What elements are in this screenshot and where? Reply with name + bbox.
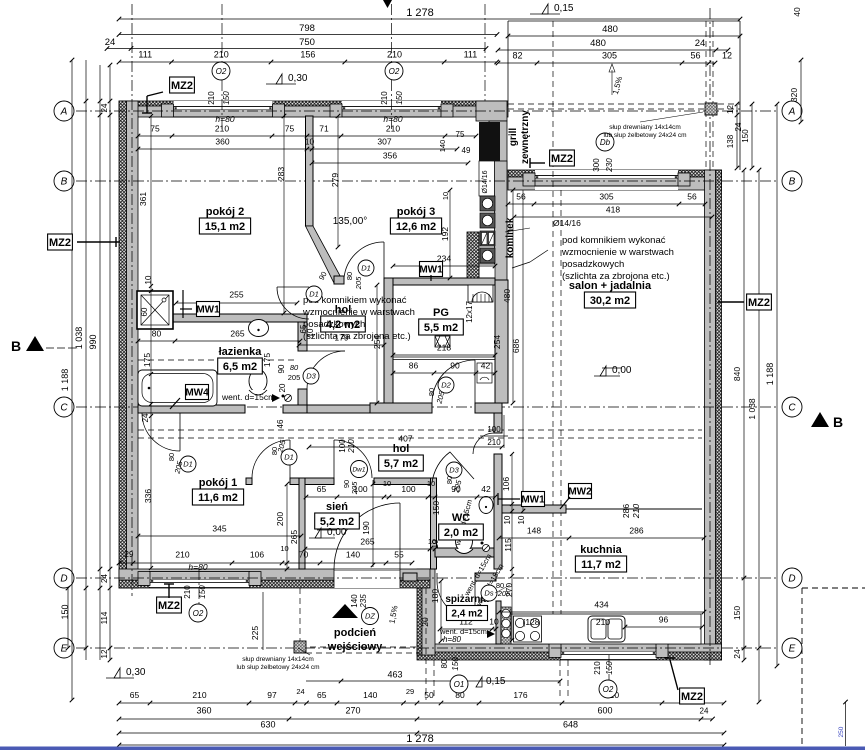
svg-text:posadzkowych: posadzkowych bbox=[303, 319, 365, 330]
svg-text:O2: O2 bbox=[216, 67, 227, 76]
svg-text:(128: (128 bbox=[522, 617, 539, 627]
svg-text:h=80: h=80 bbox=[188, 562, 207, 572]
svg-text:75: 75 bbox=[150, 124, 160, 134]
svg-text:Ø14/16: Ø14/16 bbox=[482, 170, 489, 193]
svg-text:175: 175 bbox=[262, 353, 272, 367]
svg-text:24: 24 bbox=[734, 122, 743, 131]
svg-text:210: 210 bbox=[386, 124, 400, 134]
svg-text:D1: D1 bbox=[183, 460, 193, 469]
svg-text:podcień: podcień bbox=[334, 627, 376, 639]
svg-text:D2: D2 bbox=[441, 381, 451, 390]
svg-text:798: 798 bbox=[299, 23, 315, 34]
svg-text:B: B bbox=[833, 414, 843, 430]
svg-text:A: A bbox=[788, 107, 796, 118]
svg-text:56: 56 bbox=[516, 192, 526, 202]
svg-text:210: 210 bbox=[380, 91, 389, 105]
svg-text:Ds: Ds bbox=[484, 589, 493, 598]
svg-text:24: 24 bbox=[100, 574, 109, 583]
svg-text:50: 50 bbox=[424, 690, 434, 700]
svg-text:111: 111 bbox=[138, 50, 152, 60]
svg-text:MW2: MW2 bbox=[568, 487, 592, 498]
svg-text:hol: hol bbox=[393, 443, 410, 455]
svg-text:D1: D1 bbox=[309, 290, 319, 299]
svg-text:0,00: 0,00 bbox=[327, 527, 347, 538]
svg-text:h=80: h=80 bbox=[215, 114, 234, 124]
svg-text:O2: O2 bbox=[603, 685, 614, 694]
svg-text:went. d=15cm: went. d=15cm bbox=[221, 392, 275, 402]
svg-text:305: 305 bbox=[599, 192, 613, 202]
svg-text:286: 286 bbox=[621, 504, 631, 518]
svg-text:265: 265 bbox=[289, 530, 299, 544]
svg-text:10: 10 bbox=[441, 192, 450, 200]
svg-text:148: 148 bbox=[527, 526, 541, 536]
svg-text:24: 24 bbox=[695, 38, 706, 49]
svg-text:E: E bbox=[789, 644, 796, 655]
svg-text:pokój 2: pokój 2 bbox=[206, 206, 245, 218]
svg-text:5,7 m2: 5,7 m2 bbox=[384, 458, 418, 470]
svg-text:320: 320 bbox=[789, 88, 799, 102]
svg-text:1 038: 1 038 bbox=[747, 398, 757, 420]
svg-text:29: 29 bbox=[125, 550, 134, 559]
svg-text:MZ2: MZ2 bbox=[158, 600, 180, 612]
svg-text:Dw1: Dw1 bbox=[352, 466, 365, 473]
svg-text:80: 80 bbox=[152, 329, 162, 339]
svg-text:B: B bbox=[61, 177, 68, 188]
svg-text:990: 990 bbox=[88, 334, 98, 349]
svg-text:10: 10 bbox=[280, 544, 288, 553]
svg-text:65: 65 bbox=[317, 690, 327, 700]
svg-text:600: 600 bbox=[597, 706, 612, 716]
svg-text:115: 115 bbox=[503, 538, 513, 552]
svg-text:20: 20 bbox=[278, 383, 287, 392]
svg-text:2,4 m2: 2,4 m2 bbox=[451, 609, 483, 620]
svg-text:46: 46 bbox=[276, 419, 285, 428]
svg-text:140: 140 bbox=[346, 550, 360, 560]
svg-text:80: 80 bbox=[290, 363, 299, 372]
svg-text:24: 24 bbox=[296, 687, 304, 696]
svg-text:24: 24 bbox=[141, 413, 150, 422]
svg-text:360: 360 bbox=[215, 137, 229, 147]
svg-text:D: D bbox=[788, 574, 795, 585]
svg-text:C: C bbox=[60, 403, 68, 414]
svg-text:176: 176 bbox=[513, 690, 527, 700]
svg-text:218: 218 bbox=[437, 343, 451, 353]
svg-text:300: 300 bbox=[592, 158, 601, 172]
svg-text:210: 210 bbox=[487, 438, 501, 447]
svg-text:0,15: 0,15 bbox=[554, 3, 574, 14]
svg-text:lub słup żelbetowy 24x24 cm: lub słup żelbetowy 24x24 cm bbox=[603, 132, 686, 139]
svg-text:90: 90 bbox=[277, 364, 286, 373]
svg-text:80: 80 bbox=[167, 453, 176, 461]
svg-text:0,00: 0,00 bbox=[612, 365, 632, 376]
svg-text:12,6 m2: 12,6 m2 bbox=[396, 221, 436, 233]
svg-text:750: 750 bbox=[299, 37, 315, 48]
svg-text:10: 10 bbox=[489, 617, 499, 627]
svg-text:286: 286 bbox=[629, 526, 643, 536]
svg-text:56: 56 bbox=[687, 192, 697, 202]
svg-text:190: 190 bbox=[362, 521, 371, 535]
svg-text:210: 210 bbox=[387, 50, 402, 60]
svg-text:150: 150 bbox=[198, 585, 207, 599]
svg-text:100: 100 bbox=[487, 425, 501, 434]
svg-text:55: 55 bbox=[394, 550, 404, 560]
svg-text:361: 361 bbox=[138, 192, 148, 206]
svg-text:MZ2: MZ2 bbox=[171, 80, 193, 92]
svg-text:12: 12 bbox=[726, 105, 735, 114]
svg-text:1 188: 1 188 bbox=[765, 363, 775, 386]
svg-text:210: 210 bbox=[183, 585, 192, 599]
svg-text:29: 29 bbox=[406, 687, 414, 696]
svg-text:h=80: h=80 bbox=[383, 114, 402, 124]
svg-text:106: 106 bbox=[250, 550, 264, 560]
svg-text:307: 307 bbox=[377, 137, 391, 147]
svg-text:h=80: h=80 bbox=[443, 635, 462, 644]
svg-text:WC: WC bbox=[452, 512, 470, 524]
svg-text:210: 210 bbox=[593, 661, 602, 675]
svg-text:230: 230 bbox=[605, 158, 614, 173]
svg-text:140: 140 bbox=[350, 594, 359, 608]
svg-text:254: 254 bbox=[492, 335, 502, 349]
svg-text:480: 480 bbox=[502, 289, 512, 303]
svg-text:305: 305 bbox=[602, 51, 617, 61]
svg-text:648: 648 bbox=[563, 720, 578, 730]
svg-text:pokój 3: pokój 3 bbox=[397, 206, 436, 218]
svg-text:434: 434 bbox=[594, 600, 608, 610]
svg-text:407: 407 bbox=[398, 434, 412, 444]
svg-text:24: 24 bbox=[732, 649, 742, 659]
svg-text:49: 49 bbox=[462, 146, 471, 155]
svg-text:wzmocnienie w warstwach: wzmocnienie w warstwach bbox=[302, 307, 415, 318]
svg-text:słup drewniany 14x14cm: słup drewniany 14x14cm bbox=[609, 124, 681, 131]
svg-text:wzmocnienie w warstwach: wzmocnienie w warstwach bbox=[561, 247, 674, 258]
svg-text:150: 150 bbox=[60, 604, 70, 619]
svg-text:11,7 m2: 11,7 m2 bbox=[581, 559, 621, 571]
svg-text:24: 24 bbox=[100, 103, 109, 112]
svg-text:lub słup żelbetowy 24x24 cm: lub słup żelbetowy 24x24 cm bbox=[236, 664, 319, 671]
svg-text:(szlichta za zbrojona etc.): (szlichta za zbrojona etc.) bbox=[303, 331, 411, 342]
svg-text:265: 265 bbox=[230, 329, 244, 339]
svg-text:B: B bbox=[11, 338, 21, 354]
svg-text:210: 210 bbox=[596, 617, 610, 627]
svg-text:156: 156 bbox=[300, 50, 315, 60]
svg-text:270: 270 bbox=[345, 706, 360, 716]
svg-text:D: D bbox=[60, 574, 67, 585]
svg-text:O2: O2 bbox=[193, 609, 204, 618]
svg-text:138: 138 bbox=[726, 134, 735, 148]
svg-text:180: 180 bbox=[430, 589, 440, 603]
svg-text:Ø14/16: Ø14/16 bbox=[553, 218, 581, 228]
svg-text:480: 480 bbox=[602, 24, 618, 35]
svg-text:posadzkowych: posadzkowych bbox=[562, 259, 624, 270]
svg-text:kuchnia: kuchnia bbox=[580, 544, 622, 556]
svg-text:60: 60 bbox=[140, 307, 149, 316]
svg-text:11,6 m2: 11,6 m2 bbox=[198, 492, 238, 504]
svg-text:D3: D3 bbox=[449, 466, 459, 475]
svg-text:42: 42 bbox=[481, 361, 491, 371]
svg-text:96: 96 bbox=[659, 615, 669, 625]
svg-text:80: 80 bbox=[345, 272, 354, 280]
svg-text:Db: Db bbox=[600, 138, 611, 147]
svg-text:6,5 m2: 6,5 m2 bbox=[223, 361, 257, 373]
svg-text:O2: O2 bbox=[389, 67, 400, 76]
svg-text:345: 345 bbox=[212, 524, 226, 534]
svg-text:65: 65 bbox=[317, 484, 327, 494]
svg-text:100: 100 bbox=[401, 484, 415, 494]
svg-text:MW1: MW1 bbox=[196, 305, 220, 316]
svg-text:283: 283 bbox=[276, 167, 286, 181]
svg-text:MZ2: MZ2 bbox=[49, 237, 71, 249]
svg-text:0,30: 0,30 bbox=[126, 667, 146, 678]
svg-text:80: 80 bbox=[445, 476, 454, 484]
svg-text:DZ: DZ bbox=[365, 612, 375, 621]
svg-text:MW1: MW1 bbox=[419, 265, 443, 276]
svg-text:140: 140 bbox=[363, 690, 377, 700]
svg-text:100: 100 bbox=[338, 439, 347, 453]
svg-text:10: 10 bbox=[427, 479, 435, 488]
svg-text:200: 200 bbox=[275, 512, 285, 526]
svg-text:90: 90 bbox=[450, 361, 460, 371]
svg-text:82: 82 bbox=[512, 51, 522, 61]
svg-text:24: 24 bbox=[105, 37, 116, 48]
svg-text:80: 80 bbox=[440, 659, 449, 668]
svg-text:336: 336 bbox=[143, 489, 153, 503]
svg-text:210: 210 bbox=[175, 550, 189, 560]
svg-text:150: 150 bbox=[395, 91, 404, 105]
svg-text:12: 12 bbox=[100, 649, 109, 658]
svg-text:10: 10 bbox=[517, 515, 526, 524]
svg-text:1 188: 1 188 bbox=[60, 369, 70, 392]
svg-text:2,0 m2: 2,0 m2 bbox=[444, 527, 478, 539]
svg-text:1 038: 1 038 bbox=[74, 327, 84, 350]
svg-text:(szlichta za zbrojona etc.): (szlichta za zbrojona etc.) bbox=[562, 271, 670, 282]
svg-text:A: A bbox=[60, 107, 68, 118]
svg-text:86: 86 bbox=[409, 361, 419, 371]
svg-text:150: 150 bbox=[431, 501, 441, 515]
svg-text:65: 65 bbox=[130, 690, 140, 700]
svg-text:0,30: 0,30 bbox=[288, 73, 308, 84]
svg-text:75: 75 bbox=[285, 124, 295, 134]
svg-text:630: 630 bbox=[260, 720, 275, 730]
svg-text:C: C bbox=[788, 403, 796, 414]
svg-text:24: 24 bbox=[700, 707, 709, 716]
svg-text:30,2 m2: 30,2 m2 bbox=[590, 295, 630, 307]
svg-text:250: 250 bbox=[838, 726, 845, 737]
svg-text:40: 40 bbox=[792, 7, 802, 17]
svg-text:B: B bbox=[789, 177, 796, 188]
svg-text:10: 10 bbox=[383, 479, 391, 488]
svg-text:56: 56 bbox=[690, 51, 700, 61]
svg-text:wejściowy: wejściowy bbox=[327, 641, 383, 653]
svg-text:210: 210 bbox=[214, 50, 229, 60]
svg-text:1 278: 1 278 bbox=[406, 733, 434, 745]
svg-text:42: 42 bbox=[481, 484, 491, 494]
svg-text:686: 686 bbox=[511, 339, 521, 353]
svg-text:840: 840 bbox=[732, 367, 742, 381]
svg-text:114: 114 bbox=[100, 611, 109, 624]
svg-text:210: 210 bbox=[347, 439, 356, 454]
svg-text:80: 80 bbox=[427, 388, 436, 396]
svg-text:97: 97 bbox=[267, 690, 277, 700]
svg-text:MW1: MW1 bbox=[521, 495, 545, 506]
svg-text:140: 140 bbox=[438, 140, 447, 153]
svg-text:D1: D1 bbox=[284, 453, 294, 462]
svg-text:słup drewniany 14x14cm: słup drewniany 14x14cm bbox=[242, 656, 314, 663]
svg-text:grill: grill bbox=[508, 128, 519, 147]
svg-text:106: 106 bbox=[501, 477, 511, 491]
svg-text:kominek: kominek bbox=[505, 217, 516, 258]
svg-text:205: 205 bbox=[350, 481, 359, 495]
svg-text:210: 210 bbox=[192, 690, 206, 700]
svg-text:10: 10 bbox=[503, 515, 512, 524]
svg-text:150: 150 bbox=[605, 661, 614, 675]
svg-text:360: 360 bbox=[196, 706, 211, 716]
svg-text:480: 480 bbox=[590, 38, 606, 49]
svg-text:MW4: MW4 bbox=[185, 388, 209, 399]
svg-text:łazienka: łazienka bbox=[219, 346, 263, 358]
svg-text:235: 235 bbox=[359, 594, 368, 609]
svg-text:sień: sień bbox=[326, 501, 348, 513]
svg-text:356: 356 bbox=[383, 151, 397, 161]
svg-text:175: 175 bbox=[142, 353, 152, 367]
svg-text:210: 210 bbox=[207, 91, 216, 105]
svg-text:15,1 m2: 15,1 m2 bbox=[205, 221, 245, 233]
svg-text:210: 210 bbox=[631, 504, 641, 519]
svg-text:1 278: 1 278 bbox=[406, 7, 434, 19]
svg-text:75: 75 bbox=[456, 130, 465, 139]
svg-text:111: 111 bbox=[464, 50, 478, 60]
svg-text:205: 205 bbox=[288, 373, 301, 382]
svg-text:pod komnikiem wykonać: pod komnikiem wykonać bbox=[562, 235, 666, 246]
svg-text:5,5 m2: 5,5 m2 bbox=[424, 322, 458, 334]
svg-text:279: 279 bbox=[330, 173, 340, 187]
svg-text:20: 20 bbox=[420, 617, 430, 627]
svg-text:D1: D1 bbox=[361, 264, 371, 273]
svg-text:MZ2: MZ2 bbox=[681, 691, 703, 703]
svg-text:D3: D3 bbox=[306, 372, 316, 381]
svg-text:225: 225 bbox=[250, 626, 260, 640]
svg-text:71: 71 bbox=[319, 124, 329, 134]
svg-text:12: 12 bbox=[722, 51, 732, 61]
svg-text:205: 205 bbox=[497, 589, 511, 598]
svg-text:MZ2: MZ2 bbox=[551, 153, 573, 165]
svg-text:150: 150 bbox=[732, 606, 742, 620]
svg-text:10: 10 bbox=[144, 275, 153, 284]
svg-text:10: 10 bbox=[305, 137, 315, 147]
svg-text:255: 255 bbox=[229, 290, 243, 300]
svg-text:zewnętrzny: zewnętrzny bbox=[520, 110, 531, 164]
svg-text:PG: PG bbox=[433, 307, 449, 319]
svg-text:pokój 1: pokój 1 bbox=[199, 477, 238, 489]
svg-text:0,15: 0,15 bbox=[486, 676, 506, 687]
svg-text:418: 418 bbox=[606, 205, 620, 215]
svg-text:MZ2: MZ2 bbox=[748, 297, 770, 309]
svg-text:205: 205 bbox=[354, 276, 363, 290]
svg-text:463: 463 bbox=[387, 670, 402, 680]
svg-text:12x17: 12x17 bbox=[465, 301, 474, 323]
svg-text:O1: O1 bbox=[454, 680, 465, 689]
svg-text:210: 210 bbox=[215, 124, 229, 134]
svg-text:150: 150 bbox=[222, 91, 231, 105]
svg-text:150: 150 bbox=[451, 657, 460, 671]
